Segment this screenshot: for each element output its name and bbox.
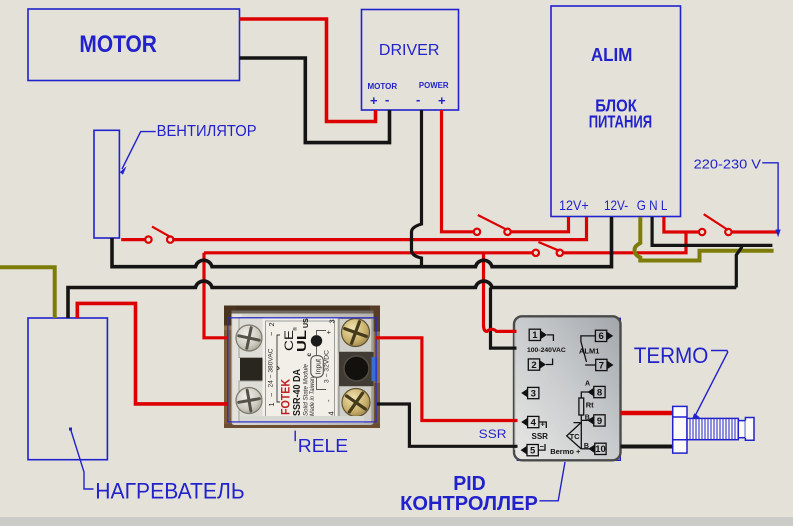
termo pointer xyxy=(694,351,728,419)
pin numbers xyxy=(530,330,606,456)
rele pointer xyxy=(294,431,296,442)
svg-text:Rt: Rt xyxy=(586,401,594,410)
switch S2 xyxy=(474,229,480,235)
svg-text:+: + xyxy=(438,93,446,108)
left terminal blocks xyxy=(239,318,264,358)
switch S4 xyxy=(533,250,539,256)
svg-text:3: 3 xyxy=(328,319,337,323)
svg-text:−: − xyxy=(540,442,545,451)
relay blue frame xyxy=(228,318,376,422)
svg-text:~: ~ xyxy=(267,331,276,336)
pin1 terminal xyxy=(529,329,540,340)
alarm contact xyxy=(581,342,587,363)
svg-text:~: ~ xyxy=(267,392,276,397)
pin9 terminal xyxy=(594,415,605,426)
svg-text:+: + xyxy=(324,330,333,335)
tc symbol xyxy=(567,422,582,449)
wire black relay screw4 to pid pin5 xyxy=(377,404,518,446)
wood background xyxy=(224,306,380,429)
wire black driver power- with jog xyxy=(412,110,422,267)
svg-text:B: B xyxy=(584,443,589,450)
svg-text:POWER: POWER xyxy=(419,81,449,90)
svg-text:Input: Input xyxy=(316,359,323,375)
wire red bus down to relay screw1 xyxy=(204,253,228,338)
label plate xyxy=(263,318,338,423)
screw 2 xyxy=(236,388,262,414)
svg-text:ALIM: ALIM xyxy=(591,45,633,65)
svg-text:CE: CE xyxy=(282,330,296,351)
wire black heater bus with hops xyxy=(68,281,736,318)
svg-text:UL: UL xyxy=(295,330,309,352)
wire red pid to thermo xyxy=(621,411,674,416)
led dot xyxy=(311,335,322,346)
220-230V pointer xyxy=(762,163,778,233)
pid controller photo group xyxy=(514,316,621,460)
svg-text:220-230 V: 220-230 V xyxy=(694,158,762,172)
svg-text:3: 3 xyxy=(531,388,536,399)
svg-text:MOTOR: MOTOR xyxy=(368,82,398,91)
pid pointer xyxy=(539,462,565,501)
svg-text:PID: PID xyxy=(453,473,486,495)
blue clip xyxy=(372,357,379,381)
svg-text:8: 8 xyxy=(597,387,602,398)
bottom flange xyxy=(240,416,364,423)
rt resistor xyxy=(579,398,584,415)
svg-text:100-240VAC: 100-240VAC xyxy=(527,347,566,354)
svg-text:B: B xyxy=(585,415,590,422)
power supply box ALIM xyxy=(551,6,681,217)
pin8 terminal xyxy=(594,386,605,397)
motor box M xyxy=(28,9,240,81)
svg-text:A: A xyxy=(585,381,590,388)
switch S1 fan xyxy=(145,236,151,242)
svg-text:SSR: SSR xyxy=(479,427,507,441)
svg-text:TERMO: TERMO xyxy=(634,343,709,368)
pin5 terminal xyxy=(527,445,538,456)
svg-text:12V+: 12V+ xyxy=(559,197,589,213)
svg-text:-: - xyxy=(416,92,420,107)
svg-text:c: c xyxy=(306,353,313,357)
wire red L mains xyxy=(664,217,699,232)
svg-text:7: 7 xyxy=(599,360,604,371)
wire red heater to relay screw2 xyxy=(77,303,228,404)
bottom gray band xyxy=(0,517,793,526)
svg-text:DRIVER: DRIVER xyxy=(379,42,440,59)
wire black N line xyxy=(652,217,772,245)
svg-text:SSR-40 DA: SSR-40 DA xyxy=(292,369,303,416)
driver box U xyxy=(362,10,459,111)
svg-text:3 ~ 32VDC: 3 ~ 32VDC xyxy=(324,350,331,383)
svg-text:Made in Taiwan: Made in Taiwan xyxy=(309,376,316,416)
fan box xyxy=(94,130,119,238)
wire red 240VAC bus xyxy=(204,251,533,254)
screw 3 xyxy=(342,319,370,347)
pin triangles xyxy=(521,331,614,455)
switch S3 mains xyxy=(699,229,705,235)
relay photo group xyxy=(224,306,380,429)
svg-text:ALM1: ALM1 xyxy=(579,346,599,355)
svg-text:КОНТРОЛЛЕР: КОНТРОЛЛЕР xyxy=(400,493,538,515)
thermocouple threads xyxy=(690,418,735,439)
wire red relay screw3 to pid pin4 xyxy=(376,338,518,421)
svg-text:9: 9 xyxy=(597,416,602,427)
svg-text:TC: TC xyxy=(570,432,581,441)
pin3 terminal xyxy=(528,387,539,398)
wire black motor to driver xyxy=(240,58,390,143)
relay body xyxy=(232,311,374,426)
screw 4 xyxy=(342,389,370,417)
svg-text:НАГРЕВАТЕЛЬ: НАГРЕВАТЕЛЬ xyxy=(95,478,244,503)
wire black N down to heater bus xyxy=(736,245,741,287)
svg-text:SSR: SSR xyxy=(532,432,549,441)
input box xyxy=(311,356,324,378)
pin4 terminal xyxy=(528,416,539,427)
left base flange xyxy=(233,314,242,422)
pin2 terminal xyxy=(528,359,539,370)
svg-text:+: + xyxy=(541,420,546,429)
center hole xyxy=(344,356,369,381)
svg-text:MOTOR: MOTOR xyxy=(79,31,156,58)
svg-text:10: 10 xyxy=(595,444,606,455)
wire black N to pid pin2 xyxy=(491,288,517,349)
svg-text:®: ® xyxy=(292,327,299,331)
wire red driver power to switch to 12V+ xyxy=(442,110,474,232)
wire olive earth to heater xyxy=(0,267,55,318)
wire black pid to thermo xyxy=(621,445,674,449)
svg-text:5: 5 xyxy=(530,446,536,457)
pin10 terminal xyxy=(595,443,606,454)
svg-text:US: US xyxy=(303,318,310,328)
svg-text:-: - xyxy=(385,92,389,107)
right terminal blocks xyxy=(339,319,372,353)
svg-text:4: 4 xyxy=(531,417,537,428)
wire red motor to driver xyxy=(240,19,376,122)
svg-text:4: 4 xyxy=(327,411,336,415)
heater pointer xyxy=(69,428,72,431)
bracket line xyxy=(277,335,280,402)
fan pointer xyxy=(122,132,156,169)
svg-text:FOTEK: FOTEK xyxy=(279,379,293,415)
svg-text:12V-: 12V- xyxy=(604,197,628,213)
svg-text:Вermo +: Вermo + xyxy=(550,447,581,456)
pin7 terminal xyxy=(596,359,607,370)
svg-text:RELE: RELE xyxy=(298,435,348,456)
pid blue frame xyxy=(517,318,620,460)
svg-text:2: 2 xyxy=(267,322,276,326)
svg-text:6: 6 xyxy=(598,331,603,342)
wire black 12V- bus with hops xyxy=(112,217,612,267)
pin6 terminal xyxy=(595,330,606,341)
svg-text:1: 1 xyxy=(532,330,538,341)
svg-text:ВЕНТИЛЯТОР: ВЕНТИЛЯТОР xyxy=(157,123,257,140)
heater box xyxy=(28,318,107,460)
screw 1 xyxy=(236,325,262,351)
svg-text:G N L: G N L xyxy=(637,197,668,213)
thermocouple drawing xyxy=(673,406,754,453)
wire olive G path xyxy=(635,217,774,261)
svg-text:24 ~ 380VAC: 24 ~ 380VAC xyxy=(268,348,275,387)
svg-text:ПИТАНИЯ: ПИТАНИЯ xyxy=(589,112,652,132)
svg-text:1: 1 xyxy=(267,402,276,406)
wire red bus down to pid pin1 with hop xyxy=(484,253,517,332)
svg-text:+: + xyxy=(370,93,378,108)
svg-text:2: 2 xyxy=(531,360,536,371)
wire red fan line from 12V+ xyxy=(174,217,587,240)
